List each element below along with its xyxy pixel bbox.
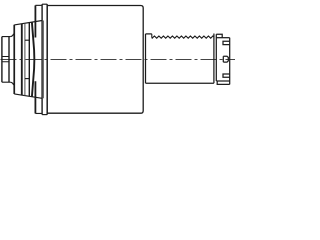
collar ring right face <box>24 23 26 95</box>
drive slot wall face <box>34 5 36 113</box>
taper small-end face <box>13 25 15 94</box>
taper cone bottom edge <box>14 94 42 98</box>
nut right face <box>229 38 231 85</box>
stud neck arc bottom <box>10 82 13 85</box>
nut left face <box>215 34 217 81</box>
nut high block top <box>216 34 222 38</box>
groove right wall <box>28 23 30 97</box>
tool holder technical drawing <box>0 0 236 119</box>
cylinder top flat <box>146 33 152 35</box>
pull stud bore lines <box>2 57 9 62</box>
nut bottom key block <box>217 81 230 84</box>
flange top edge <box>42 3 47 5</box>
drive slot floor top edge <box>35 4 42 6</box>
pull stud head top and bottom edges <box>2 37 10 83</box>
stud neck arc top <box>10 34 13 37</box>
flange bottom edge <box>42 114 47 116</box>
flange left face <box>41 4 43 114</box>
cylinder face at body <box>145 34 147 83</box>
v-groove sloped wall <box>32 22 34 97</box>
pull stud head back line <box>8 37 10 83</box>
relief groove bottom bottom-half <box>25 78 29 80</box>
flange right face <box>46 4 48 114</box>
nut bottom edge <box>216 80 229 82</box>
taper cone top edge <box>14 21 42 25</box>
flange chamfer line <box>42 21 44 99</box>
bottom bracket slot <box>223 74 230 77</box>
thread zigzag <box>152 34 214 38</box>
pull stud head left face <box>1 37 3 83</box>
nut lower top edge <box>216 37 229 39</box>
center square on nut face <box>223 56 228 62</box>
top bracket slot <box>223 41 230 44</box>
relief groove bottom top-half <box>25 39 29 41</box>
centerline <box>1 58 236 60</box>
drive slot floor bottom edge <box>35 112 42 114</box>
cylinder end face <box>213 34 215 84</box>
cylinder bottom edge <box>146 82 214 84</box>
collar ring left face <box>21 24 23 95</box>
main body outline <box>47 6 143 114</box>
